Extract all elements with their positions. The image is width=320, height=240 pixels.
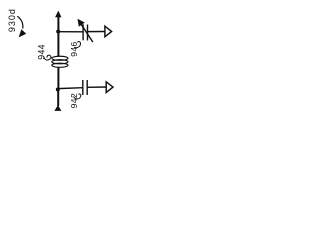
wire bottom horizontal right segment	[87, 86, 106, 88]
svg-text:944: 944	[36, 44, 46, 60]
wire top horizontal left segment	[58, 31, 83, 33]
wire bus upper (dot to coil)	[57, 32, 59, 57]
inductor L944 loops	[52, 56, 68, 67]
open triangle bottom (output)	[106, 82, 113, 93]
top arrow (antenna feed)	[57, 16, 59, 32]
node A junction dot top	[56, 30, 60, 34]
wire top horizontal right segment	[88, 31, 105, 33]
open triangle top (output)	[105, 26, 112, 37]
capacitor C942: left plate	[82, 80, 84, 95]
svg-text:946: 946	[69, 41, 79, 57]
ground marker triangle	[54, 105, 61, 111]
capacitor C946 variable: right plate	[87, 25, 89, 41]
wire bus to ground triangle	[57, 90, 59, 107]
leader 944 with curl	[44, 55, 51, 60]
svg-text:942: 942	[69, 93, 79, 109]
svg-text:930d: 930d	[7, 8, 17, 32]
leader curl 942	[74, 94, 81, 99]
capacitor C946 variable: left plate	[82, 24, 84, 40]
wire bus lower (coil to bottom dot)	[57, 67, 59, 90]
wire bottom horizontal left segment	[58, 87, 83, 90]
leader curl 946	[74, 42, 81, 48]
capacitor C946 variable: arrow	[81, 24, 93, 43]
capacitor C942: right plate	[86, 80, 88, 95]
leader arrow for 930d	[17, 16, 23, 28]
node B junction dot bottom	[56, 88, 60, 92]
